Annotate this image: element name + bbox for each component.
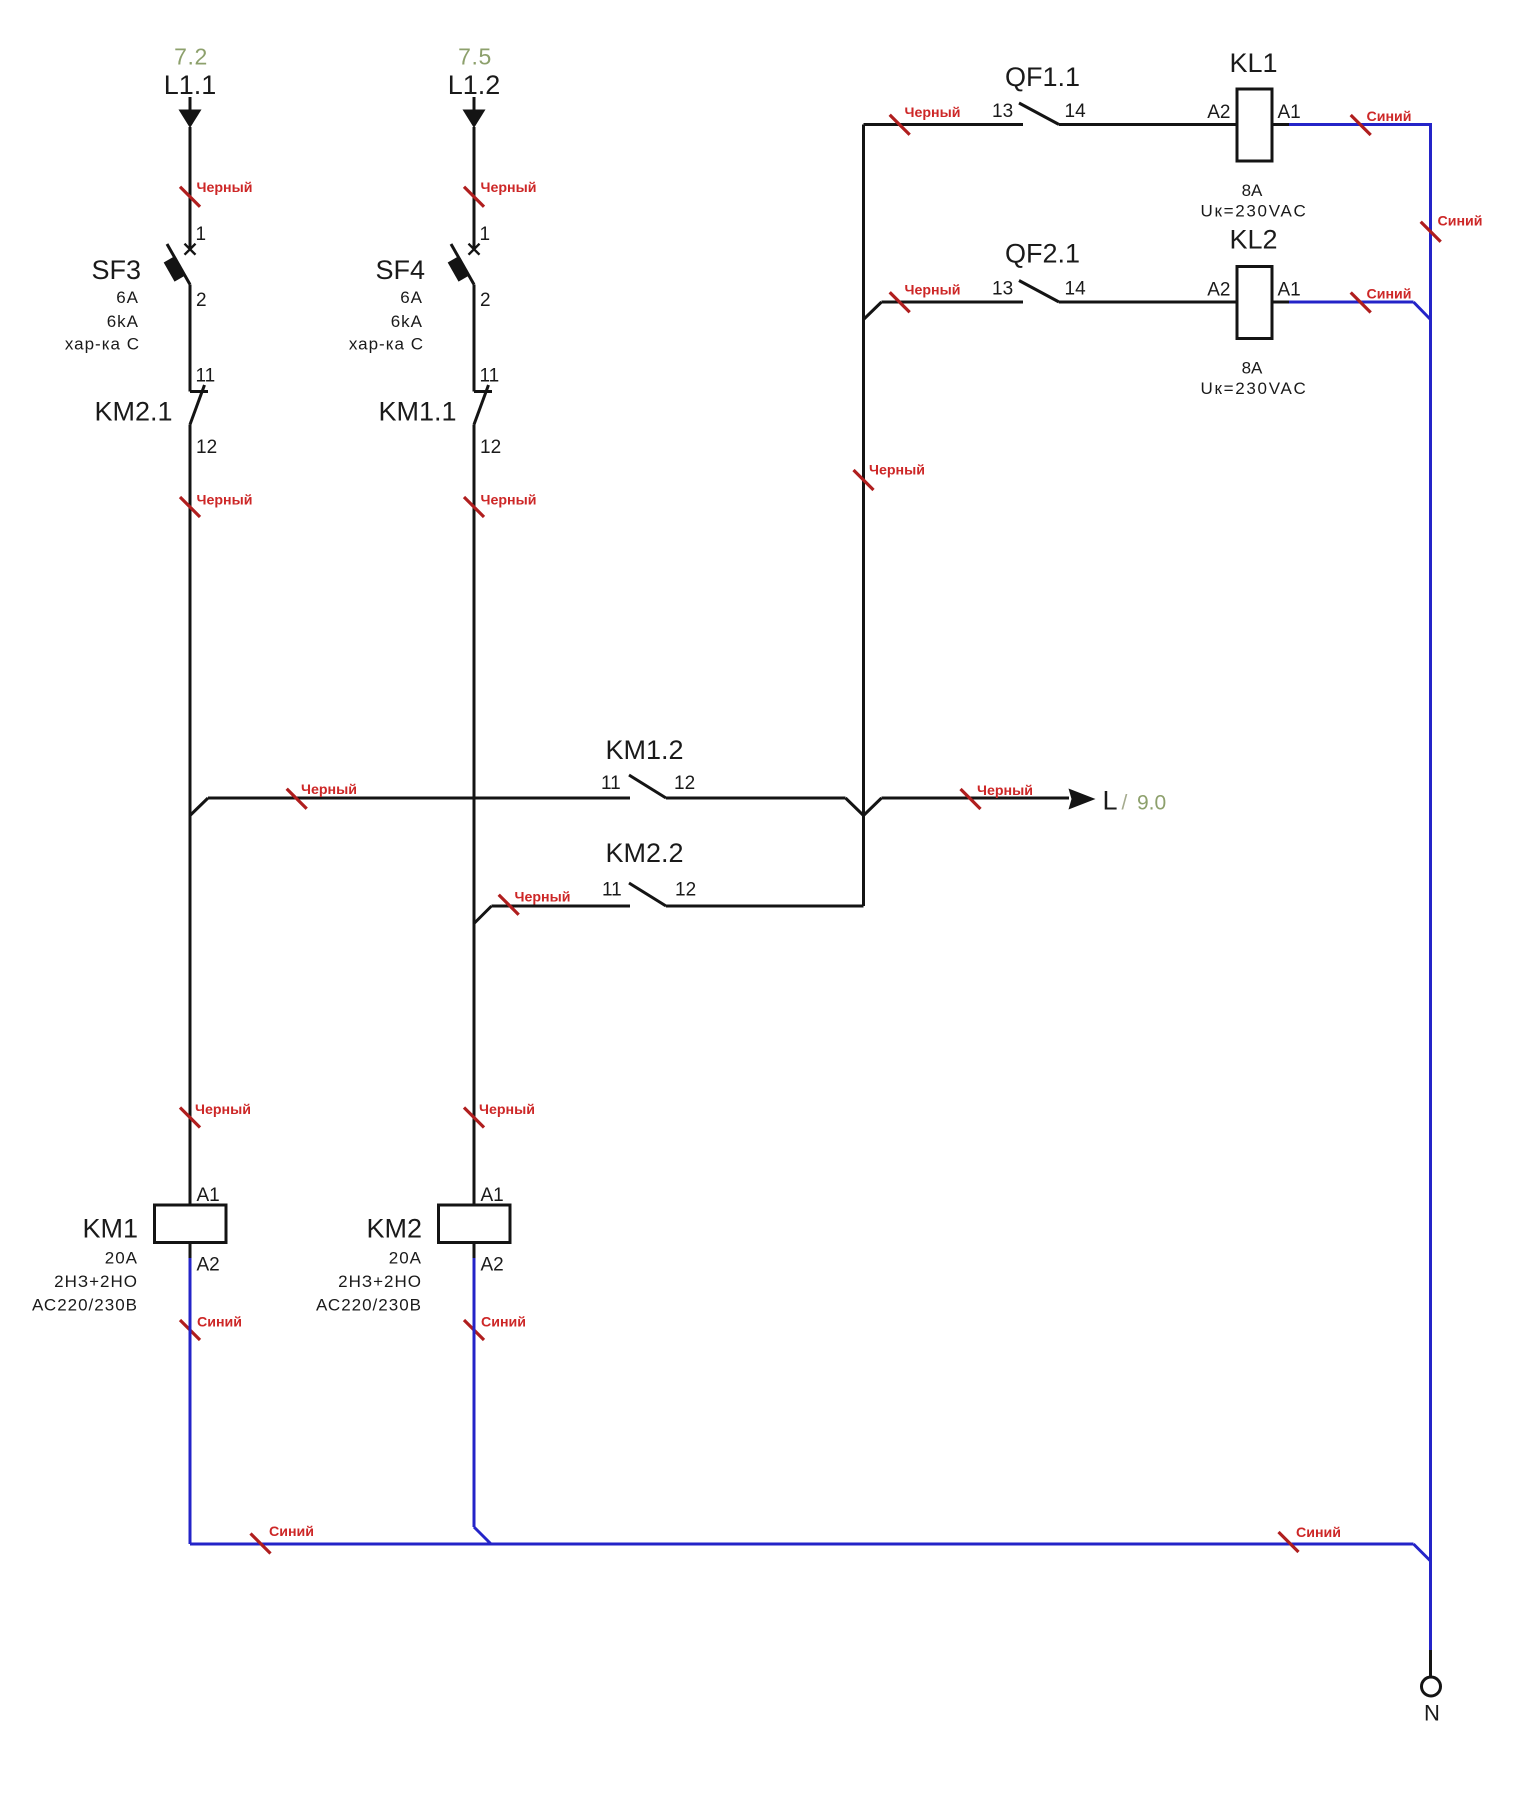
- svg-text:12: 12: [196, 437, 217, 458]
- svg-text:A1: A1: [1278, 280, 1301, 301]
- svg-text:KM2.1: KM2.1: [94, 397, 172, 427]
- svg-text:Синий: Синий: [1367, 287, 1412, 303]
- svg-text:Черный: Черный: [905, 105, 961, 121]
- svg-text:KM2.2: KM2.2: [606, 838, 684, 868]
- svg-text:12: 12: [480, 437, 501, 458]
- svg-text:QF1.1: QF1.1: [1005, 62, 1080, 92]
- svg-text:Черный: Черный: [905, 283, 961, 299]
- svg-text:13: 13: [992, 101, 1013, 122]
- svg-text:2: 2: [196, 290, 207, 311]
- svg-text:A2: A2: [1207, 280, 1230, 301]
- svg-text:20А: 20А: [105, 1249, 138, 1268]
- svg-text:KM2: KM2: [366, 1214, 422, 1244]
- svg-text:6kA: 6kA: [391, 312, 423, 331]
- svg-text:N: N: [1424, 1701, 1440, 1726]
- svg-text:14: 14: [1065, 279, 1087, 300]
- svg-text:SF4: SF4: [375, 255, 425, 285]
- svg-text:7.5: 7.5: [458, 44, 492, 70]
- svg-text:хар-ка С: хар-ка С: [65, 335, 140, 354]
- svg-text:Черный: Черный: [515, 890, 571, 906]
- svg-text:6kA: 6kA: [107, 312, 139, 331]
- svg-text:20А: 20А: [389, 1249, 422, 1268]
- svg-text:8А: 8А: [1242, 181, 1263, 200]
- svg-text:АС220/230В: АС220/230В: [316, 1296, 422, 1315]
- svg-text:13: 13: [992, 279, 1013, 300]
- svg-text:L1.2: L1.2: [448, 70, 501, 100]
- svg-text:1: 1: [196, 224, 207, 245]
- svg-text:8А: 8А: [1242, 359, 1263, 378]
- svg-text:Черный: Черный: [869, 463, 925, 479]
- svg-text:Синий: Синий: [1438, 214, 1483, 230]
- svg-text:Черный: Черный: [479, 1102, 535, 1118]
- svg-text:L: L: [1103, 786, 1118, 816]
- svg-text:2: 2: [480, 290, 491, 311]
- svg-text:Черный: Черный: [301, 782, 357, 798]
- svg-text:2НЗ+2НО: 2НЗ+2НО: [54, 1272, 138, 1291]
- svg-text:Синий: Синий: [1367, 109, 1412, 125]
- svg-text:A2: A2: [1207, 102, 1230, 123]
- svg-text:9.0: 9.0: [1137, 792, 1166, 815]
- svg-text:A1: A1: [197, 1185, 220, 1206]
- svg-text:14: 14: [1065, 101, 1087, 122]
- svg-text:KM1: KM1: [82, 1214, 138, 1244]
- svg-text:12: 12: [674, 773, 695, 794]
- svg-text:Черный: Черный: [197, 180, 253, 196]
- svg-text:Черный: Черный: [195, 1102, 251, 1118]
- svg-text:Uк=230VAC: Uк=230VAC: [1201, 202, 1308, 221]
- svg-text:12: 12: [675, 880, 696, 901]
- svg-text:Черный: Черный: [197, 493, 253, 509]
- svg-text:Черный: Черный: [481, 180, 537, 196]
- svg-text:A2: A2: [197, 1255, 220, 1276]
- svg-text:KM1.2: KM1.2: [606, 735, 684, 765]
- svg-text:Синий: Синий: [481, 1315, 526, 1331]
- svg-text:QF2.1: QF2.1: [1005, 239, 1080, 269]
- svg-text:Черный: Черный: [977, 783, 1033, 799]
- svg-text:Синий: Синий: [1296, 1525, 1341, 1541]
- svg-text:L1.1: L1.1: [164, 70, 217, 100]
- svg-text:11: 11: [601, 773, 621, 794]
- svg-text:11: 11: [196, 366, 216, 387]
- svg-text:A1: A1: [481, 1185, 504, 1206]
- svg-text:11: 11: [602, 880, 622, 901]
- svg-text:6A: 6A: [400, 288, 423, 307]
- svg-text:Синий: Синий: [269, 1524, 314, 1540]
- svg-text:Uк=230VAC: Uк=230VAC: [1201, 379, 1308, 398]
- svg-text:АС220/230В: АС220/230В: [32, 1296, 138, 1315]
- svg-text:KL2: KL2: [1229, 225, 1277, 255]
- svg-text:11: 11: [480, 366, 500, 387]
- svg-text:6A: 6A: [116, 288, 139, 307]
- svg-text:2НЗ+2НО: 2НЗ+2НО: [338, 1272, 422, 1291]
- svg-text:/: /: [1122, 792, 1128, 815]
- svg-text:Синий: Синий: [197, 1315, 242, 1331]
- svg-text:SF3: SF3: [91, 255, 141, 285]
- svg-text:хар-ка С: хар-ка С: [349, 335, 424, 354]
- svg-text:1: 1: [480, 224, 491, 245]
- svg-text:KL1: KL1: [1229, 48, 1277, 78]
- svg-text:KM1.1: KM1.1: [378, 397, 456, 427]
- svg-text:Черный: Черный: [481, 493, 537, 509]
- svg-text:A2: A2: [481, 1255, 504, 1276]
- svg-text:A1: A1: [1278, 102, 1301, 123]
- svg-text:7.2: 7.2: [174, 44, 208, 70]
